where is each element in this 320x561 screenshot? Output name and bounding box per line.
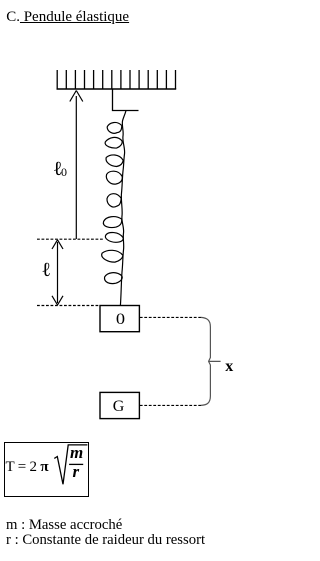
label G in box	[99, 398, 138, 416]
label l0	[54, 158, 62, 181]
dashed level line l0	[37, 238, 104, 240]
label x	[225, 358, 233, 376]
arrow l0 head	[70, 91, 83, 102]
radical sign	[54, 445, 87, 484]
dashed level line box0 top	[37, 305, 100, 307]
fraction bar	[69, 463, 83, 465]
formula box	[4, 442, 89, 497]
arrow l0 shaft	[75, 96, 77, 239]
bottom text	[6, 517, 122, 534]
dashed from box 0 to brace	[140, 316, 201, 318]
label l	[43, 259, 51, 282]
arrow l head top	[52, 240, 63, 249]
fraction r	[73, 462, 80, 482]
arrow l head bottom	[52, 296, 63, 305]
spring	[101, 111, 126, 306]
ceiling line	[57, 88, 177, 90]
dashed from box G to brace	[140, 404, 201, 406]
spring hook	[113, 89, 139, 111]
box G	[100, 392, 139, 418]
arrow l shaft	[57, 242, 59, 303]
brace x	[201, 317, 221, 405]
label 0 in box	[98, 311, 143, 329]
box 0	[100, 306, 139, 332]
ceiling hatching	[57, 70, 175, 89]
fraction m	[70, 443, 83, 463]
title	[6, 9, 129, 26]
